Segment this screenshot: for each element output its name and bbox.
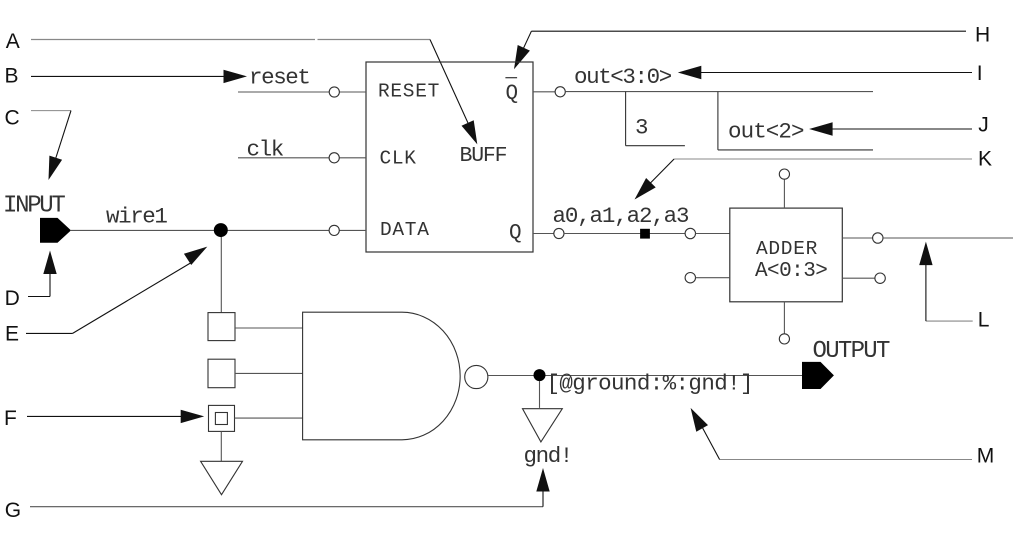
svg-text:K: K [978,148,992,171]
svg-text:D: D [5,287,20,310]
svg-text:H: H [975,24,990,47]
svg-text:M: M [977,445,995,468]
svg-text:C: C [5,107,20,130]
svg-text:Q: Q [509,222,522,245]
svg-text:3: 3 [635,115,648,141]
svg-text:F: F [4,407,17,430]
svg-text:OUTPUT: OUTPUT [813,338,891,365]
svg-text:G: G [5,499,21,522]
svg-text:J: J [978,114,989,137]
svg-text:B: B [5,65,19,88]
svg-text:I: I [977,62,983,85]
svg-text:E: E [5,323,19,346]
svg-text:DATA: DATA [380,219,430,241]
svg-text:wire1: wire1 [106,204,167,230]
svg-text:INPUT: INPUT [3,193,65,220]
svg-text:ADDER: ADDER [756,238,818,260]
svg-text:L: L [978,309,990,332]
svg-text:clk: clk [247,137,284,163]
svg-text:gnd!: gnd! [524,443,572,469]
svg-text:out<3:0>: out<3:0> [574,64,672,90]
svg-text:reset: reset [249,65,310,91]
svg-text:[@ground:%:gnd!]: [@ground:%:gnd!] [547,370,753,396]
svg-text:A<0:3>: A<0:3> [755,260,827,283]
svg-text:Q: Q [506,82,519,105]
svg-text:CLK: CLK [380,147,417,169]
svg-text:BUFF: BUFF [460,144,507,168]
svg-text:RESET: RESET [378,81,440,103]
svg-text:a0,a1,a2,a3: a0,a1,a2,a3 [553,203,690,229]
svg-text:out<2>: out<2> [728,118,804,144]
svg-text:A: A [6,30,20,53]
